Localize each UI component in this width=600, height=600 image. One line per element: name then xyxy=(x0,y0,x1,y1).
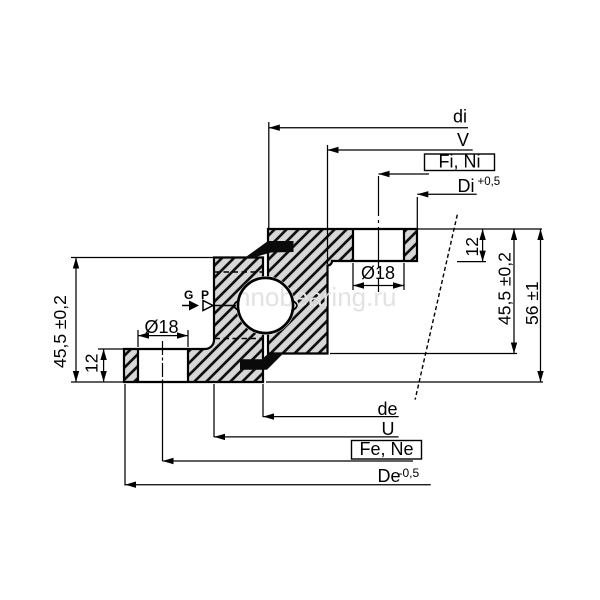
right raceway cusp fill xyxy=(292,300,297,311)
dimension di leader line xyxy=(269,127,468,129)
dimension V arrow xyxy=(328,147,339,153)
dimension 45,5 right line xyxy=(513,229,515,354)
dimension Fe,Ne leader line xyxy=(163,460,414,462)
dimension Di extension line xyxy=(416,197,418,228)
svg-text:P: P xyxy=(201,288,209,302)
dimension 12 left top extension xyxy=(98,348,125,350)
svg-text:di: di xyxy=(453,107,467,127)
dimension Fi,Ni arrow xyxy=(379,171,390,177)
dimension Ø18 right line xyxy=(353,285,404,287)
top seal xyxy=(246,241,294,259)
dimension De arrow xyxy=(125,482,136,488)
ball fill xyxy=(238,278,293,333)
dimension Fe,Ne extension line xyxy=(162,383,164,461)
dimension U leader line xyxy=(214,436,399,438)
grease symbol tail line xyxy=(182,305,189,307)
outer ring bolt hole void Ø18 xyxy=(353,230,404,260)
dimension Fi,Ni leader line xyxy=(379,173,430,175)
dimension U extension line xyxy=(213,384,215,437)
dimension De leader line xyxy=(125,484,431,486)
dimension de extension line xyxy=(262,384,264,417)
right raceway cusp stroke xyxy=(292,300,297,311)
dimension 56 line xyxy=(540,229,542,382)
dimension 45,5 right arrows xyxy=(511,229,517,240)
dimension 45,5 left bottom extension xyxy=(71,381,124,383)
svg-text:de: de xyxy=(378,399,398,419)
dimension Di arrow xyxy=(417,191,428,197)
dimension Ø18 left extension lines xyxy=(138,330,188,347)
dimension V leader line xyxy=(328,149,473,151)
left top extension line xyxy=(71,257,213,259)
dimension Ø18 left line xyxy=(138,335,188,337)
svg-text:V: V xyxy=(457,130,469,150)
outer ring hole edge lines xyxy=(353,229,404,261)
dimension Ø18 right arrows xyxy=(353,282,364,288)
diagonal section break line (dashed) xyxy=(415,215,457,400)
grease passage line xyxy=(214,305,236,307)
outer ring hole centerline xyxy=(378,176,380,292)
inner ring bolt hole void Ø18 xyxy=(138,350,188,381)
dimension De extension line xyxy=(124,384,126,486)
ball outline xyxy=(238,278,293,333)
svg-text:Di: Di xyxy=(458,176,475,196)
dimension 45,5 left arrows xyxy=(73,258,79,269)
dimension de leader line xyxy=(263,416,399,418)
dimension 45,5 right bottom extension xyxy=(330,353,517,355)
hidden raceway groove lines (dashed) xyxy=(215,272,263,339)
dimension U arrow xyxy=(214,434,225,440)
svg-text:Ø18: Ø18 xyxy=(361,263,395,283)
inner ring outline xyxy=(124,258,263,383)
dimension Ø18 left arrows xyxy=(138,332,149,338)
svg-text:56 ±1: 56 ±1 xyxy=(522,281,542,325)
bottom seal xyxy=(240,354,283,370)
dimension 12 right arrows xyxy=(479,229,485,240)
svg-text:12: 12 xyxy=(462,237,482,256)
dimension 12 left line xyxy=(103,349,105,382)
dimension di arrow xyxy=(269,125,280,131)
inner ring section fill (hatched) xyxy=(124,258,263,383)
grease symbol filled arrow G xyxy=(189,301,199,311)
dimension Fi,Ni box label xyxy=(425,154,495,171)
svg-text:-0,5: -0,5 xyxy=(399,466,420,480)
dimension Di leader line xyxy=(417,193,476,195)
dimension 12 right line xyxy=(482,229,484,262)
outer ring section fill (hatched) xyxy=(268,229,417,354)
dimension de arrow xyxy=(263,413,274,419)
dimension 56 bottom extension xyxy=(266,381,543,383)
svg-text:45,5 ±0,2: 45,5 ±0,2 xyxy=(495,252,515,325)
left raceway cusp fill xyxy=(234,300,239,311)
svg-text:45,5 ±0,2: 45,5 ±0,2 xyxy=(50,295,70,368)
dimension 56 arrows xyxy=(537,229,543,240)
outer ring outline xyxy=(268,229,417,354)
dimension Fe,Ne arrow xyxy=(163,458,174,464)
dimension V extension line xyxy=(327,145,329,264)
dimension di extension line xyxy=(268,122,270,228)
svg-text:nnobearing.ru: nnobearing.ru xyxy=(236,282,396,312)
svg-text:+0,5: +0,5 xyxy=(478,176,501,188)
ball raceway white margin xyxy=(238,278,293,333)
svg-text:Fe, Ne: Fe, Ne xyxy=(359,439,413,459)
dimension Ø18 right extension lines xyxy=(353,263,404,290)
dimension 12 left arrows xyxy=(100,349,106,360)
left raceway cusp stroke xyxy=(234,300,239,311)
inner ring hole edge lines xyxy=(138,349,188,382)
svg-text:12: 12 xyxy=(82,354,102,373)
svg-text:U: U xyxy=(382,419,395,439)
svg-text:Ø18: Ø18 xyxy=(145,317,179,337)
right top extension line xyxy=(418,228,542,230)
svg-text:Fi, Ni: Fi, Ni xyxy=(439,152,481,172)
svg-text:G: G xyxy=(184,288,193,302)
grease symbol open arrow P xyxy=(203,301,213,311)
dimension 45,5 left line xyxy=(75,258,77,383)
dimension 12 right bottom extension xyxy=(457,261,486,263)
svg-text:De: De xyxy=(378,466,401,486)
inner ring hole centerline xyxy=(162,341,164,385)
dimension Fe,Ne box label xyxy=(352,441,422,460)
